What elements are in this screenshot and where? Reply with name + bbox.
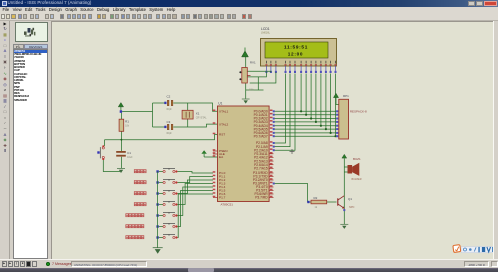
svg-text:P2.7/A15: P2.7/A15 xyxy=(254,166,268,170)
svg-text:U1: U1 xyxy=(218,101,222,105)
svg-text:P0.7/AD7: P0.7/AD7 xyxy=(253,134,267,138)
svg-text:CRYSTAL: CRYSTAL xyxy=(195,116,206,119)
svg-text:10uF: 10uF xyxy=(127,155,133,158)
svg-text:AT89C51: AT89C51 xyxy=(220,202,233,206)
svg-text:BUZZER: BUZZER xyxy=(351,177,361,180)
svg-text:LCD1: LCD1 xyxy=(261,26,270,30)
svg-text:P1.7: P1.7 xyxy=(219,195,226,199)
svg-text:LM016L: LM016L xyxy=(261,31,271,34)
svg-text:C2: C2 xyxy=(166,94,170,98)
svg-text:R2: R2 xyxy=(313,196,317,200)
svg-text:BUZ1: BUZ1 xyxy=(353,157,361,161)
svg-text:RST: RST xyxy=(219,132,225,136)
svg-text:X1: X1 xyxy=(195,111,199,115)
svg-text:C3: C3 xyxy=(166,119,170,123)
svg-text:RESPACK-8: RESPACK-8 xyxy=(349,109,366,113)
svg-text:C1: C1 xyxy=(127,151,131,155)
svg-text:XTAL2: XTAL2 xyxy=(219,122,229,126)
svg-text:11:59:51: 11:59:51 xyxy=(283,44,307,49)
svg-text:RV1: RV1 xyxy=(249,60,255,64)
svg-text:P3.7/RD: P3.7/RD xyxy=(255,195,268,199)
svg-text:10k: 10k xyxy=(125,124,130,127)
svg-text:30pF: 30pF xyxy=(166,108,172,111)
svg-text:RP1: RP1 xyxy=(343,93,349,97)
svg-text:XTAL1: XTAL1 xyxy=(219,109,229,113)
svg-text:1k: 1k xyxy=(314,206,317,209)
svg-text:30pF: 30pF xyxy=(166,132,172,135)
svg-text:R1: R1 xyxy=(125,119,129,123)
svg-text:12:00: 12:00 xyxy=(287,51,303,56)
svg-text:NPN: NPN xyxy=(349,206,354,209)
svg-text:Q1: Q1 xyxy=(348,197,352,201)
